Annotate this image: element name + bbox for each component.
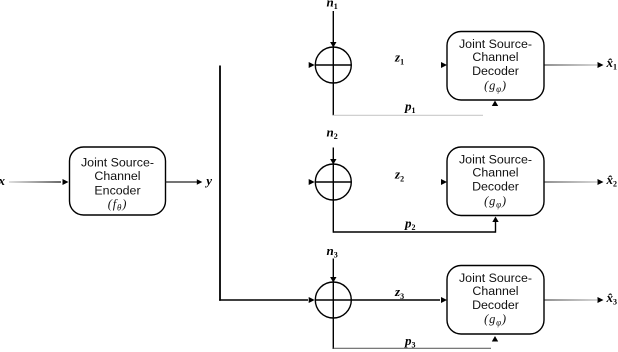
svg-text:z1: z1 [394, 50, 404, 67]
svg-text:x̂3: x̂3 [606, 290, 618, 307]
svg-text:n1: n1 [327, 0, 338, 11]
svg-text:Joint Source-: Joint Source- [459, 37, 532, 51]
svg-text:Decoder: Decoder [472, 298, 519, 312]
svg-text:p3: p3 [404, 333, 416, 350]
svg-text:z2: z2 [394, 167, 404, 184]
svg-text:(gφ): (gφ) [484, 79, 507, 95]
svg-text:z3: z3 [394, 284, 404, 301]
svg-text:Decoder: Decoder [472, 64, 519, 78]
svg-text:Encoder: Encoder [94, 184, 140, 198]
svg-text:p1: p1 [404, 99, 416, 116]
svg-text:p2: p2 [404, 216, 416, 233]
svg-text:Channel: Channel [472, 50, 518, 64]
svg-text:Channel: Channel [472, 284, 518, 298]
svg-text:Channel: Channel [94, 169, 140, 183]
svg-text:y: y [204, 173, 212, 188]
svg-text:n2: n2 [327, 125, 338, 142]
svg-text:n3: n3 [327, 243, 338, 260]
svg-text:x̂1: x̂1 [606, 55, 618, 72]
svg-text:x̂2: x̂2 [606, 172, 618, 189]
svg-text:x: x [0, 173, 6, 188]
svg-text:Joint Source-: Joint Source- [459, 271, 532, 285]
svg-text:(gφ): (gφ) [484, 312, 507, 328]
svg-text:Joint Source-: Joint Source- [81, 156, 154, 170]
svg-text:Decoder: Decoder [472, 180, 519, 194]
svg-text:Joint Source-: Joint Source- [459, 152, 532, 166]
svg-text:(gφ): (gφ) [484, 194, 507, 210]
svg-text:Channel: Channel [472, 165, 518, 179]
